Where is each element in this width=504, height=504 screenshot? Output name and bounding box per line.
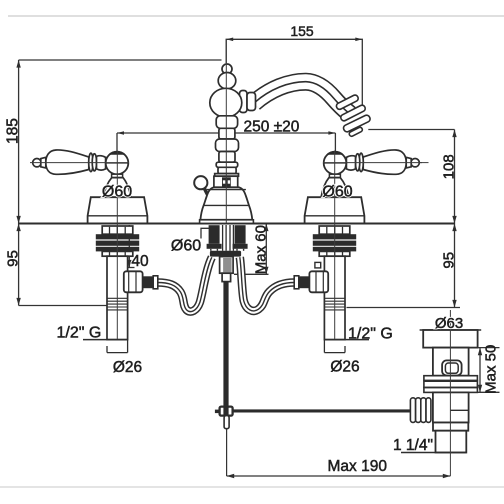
flange top edge with ticks	[420, 329, 482, 331]
drain lower body	[433, 392, 469, 422]
arrow 250 left	[117, 131, 124, 135]
dimension 108 / 95 right vertical line	[454, 130, 456, 308]
svg-text:1/2" G: 1/2" G	[57, 325, 102, 342]
dimension Max 60 line	[265, 224, 267, 275]
svg-text:Ø26: Ø26	[330, 359, 359, 376]
shank tube lines between studs	[223, 225, 234, 251]
handle tip ball	[33, 159, 41, 167]
extension line spout outlet to 108	[368, 129, 454, 131]
threaded stud left	[209, 225, 220, 244]
shank nut	[222, 273, 231, 281]
arrow 95-right top	[452, 224, 456, 232]
drain upper body	[433, 348, 469, 376]
leader leg to right handle	[334, 133, 336, 151]
flexible hose right	[240, 257, 294, 311]
pipe bottom edge + leader to 1/2 G	[83, 339, 128, 341]
svg-text:Max 60: Max 60	[252, 225, 269, 274]
spout main body ball	[210, 88, 242, 117]
extension Max 60 bottom	[234, 273, 269, 275]
leader leg to left handle	[116, 133, 118, 151]
horizontal linkage rod	[233, 409, 411, 412]
valve centerlines	[116, 151, 118, 340]
hose nipple	[143, 276, 154, 288]
arrow 95-right bottom	[452, 300, 456, 308]
drain coupling section	[433, 423, 468, 431]
arrow Max190 right	[443, 474, 451, 478]
spout arm collar	[240, 91, 256, 113]
lock plates	[424, 376, 478, 381]
arrow 108 top	[452, 130, 456, 138]
svg-text:155: 155	[290, 23, 314, 39]
tail pipe	[436, 431, 467, 453]
deck line	[19, 223, 455, 225]
handle ball joint	[106, 152, 129, 175]
tick 40	[124, 267, 135, 269]
arrow 185 bottom	[16, 216, 20, 224]
cartridge block	[214, 176, 238, 187]
arrow 95-left bottom	[16, 298, 20, 306]
pop-up rod	[223, 282, 228, 407]
svg-text:108: 108	[441, 154, 458, 179]
extension to Max 190	[226, 429, 228, 476]
right valve + handle assembly (mirror of left)	[294, 150, 422, 353]
clamp pin	[224, 416, 229, 429]
valve lock rings	[96, 234, 139, 251]
column neck N2	[219, 152, 235, 163]
overflow window	[442, 360, 462, 375]
arrow 40 bottom	[127, 260, 131, 268]
column centerline	[225, 39, 227, 223]
arrow Max60 bottom	[264, 267, 268, 275]
grip collar rings	[89, 153, 93, 172]
svg-text:Ø60: Ø60	[171, 238, 201, 255]
svg-text:Ø26: Ø26	[113, 359, 142, 376]
hose hex nut	[124, 271, 143, 292]
aerator tip	[335, 94, 371, 137]
svg-text:Max 50: Max 50	[483, 345, 500, 394]
dimension Max 190 line	[227, 475, 451, 477]
right handle centerline stub	[420, 162, 429, 164]
extension Max 50 bottom	[477, 391, 499, 393]
ball cap	[109, 151, 126, 155]
bracket bar	[210, 251, 241, 257]
arrow 155 right	[355, 38, 362, 42]
shank	[220, 257, 234, 274]
lever handle	[33, 150, 148, 223]
svg-text:1/2" G: 1/2" G	[348, 326, 393, 343]
svg-text:Ø63: Ø63	[435, 315, 463, 332]
extension Max 50 top	[478, 347, 500, 349]
faint page border top	[8, 15, 504, 17]
leader line 1 1/4	[401, 452, 466, 454]
svg-text:250 ±20: 250 ±20	[244, 119, 300, 136]
porcelain grip	[46, 150, 89, 174]
inner lever line	[450, 409, 468, 411]
bell base	[200, 187, 252, 220]
valve inlet pipe	[107, 256, 128, 339]
stud nut right	[233, 244, 248, 249]
hose collar	[153, 276, 158, 289]
cone to ball joint	[97, 156, 106, 170]
Ø26 bracket	[107, 340, 128, 353]
escutcheon trapezoid base	[88, 197, 148, 223]
arrow Max60 top	[264, 224, 268, 232]
pop-up knob	[194, 176, 207, 189]
column ring R2	[216, 139, 239, 152]
svg-text:95: 95	[5, 250, 22, 267]
flared cone base	[103, 178, 131, 198]
base plate	[200, 220, 254, 224]
stud tails	[211, 249, 244, 251]
dimension 185 / 95 left vertical line	[18, 60, 20, 306]
flexible hose left	[158, 257, 212, 311]
dimension Max 50 line	[479, 348, 481, 393]
extension line right 95 bottom	[347, 307, 461, 309]
arrow 250 right	[328, 131, 335, 135]
collar plate	[215, 174, 239, 177]
faint page border bottom	[0, 486, 504, 488]
drain flange	[423, 330, 477, 348]
svg-text:40: 40	[131, 253, 149, 270]
column ring R3	[216, 162, 238, 167]
tip neck	[41, 157, 46, 168]
column neck N3	[218, 167, 236, 173]
column neck N1	[219, 128, 235, 139]
arrow 185 top	[16, 60, 20, 68]
knurled lock nut	[410, 398, 431, 423]
svg-text:Max 190: Max 190	[328, 458, 388, 475]
svg-text:95: 95	[441, 252, 458, 269]
bleed tab on right valve pipe	[315, 262, 321, 268]
set screw square	[222, 177, 231, 186]
arrow 108 bottom	[452, 216, 456, 224]
dimension 155 line	[226, 39, 362, 109]
column ring R1	[216, 116, 237, 129]
extension line left 95 bottom	[19, 305, 107, 307]
stud nut left	[207, 244, 222, 249]
valve collar under deck	[102, 226, 133, 234]
svg-text:185: 185	[5, 118, 22, 144]
arrow 155 left	[226, 38, 233, 42]
svg-text:Ø60: Ø60	[322, 183, 352, 200]
drain centerline	[449, 310, 451, 476]
valve lower collar	[102, 251, 133, 256]
arrow Max50 bottom	[478, 385, 482, 393]
arrow 95-left top	[16, 224, 20, 232]
svg-text:1 1/4": 1 1/4"	[393, 437, 433, 454]
extension line spout top to 185	[19, 59, 222, 61]
spout upper ball	[218, 73, 236, 89]
spout finial ball	[222, 64, 232, 74]
spout arm	[254, 82, 350, 114]
pipe thread marks	[107, 298, 128, 310]
svg-text:Ø60: Ø60	[102, 183, 132, 200]
leader Ø60 center	[201, 228, 209, 238]
rod clamp	[220, 407, 233, 416]
threaded stud right	[235, 225, 246, 244]
dimension 250 +-20 line	[117, 132, 335, 134]
dimension 40 line	[128, 225, 130, 268]
arrow Max50 top	[478, 348, 482, 356]
arrow Max190 left	[227, 474, 235, 478]
neck under ball	[112, 174, 123, 177]
